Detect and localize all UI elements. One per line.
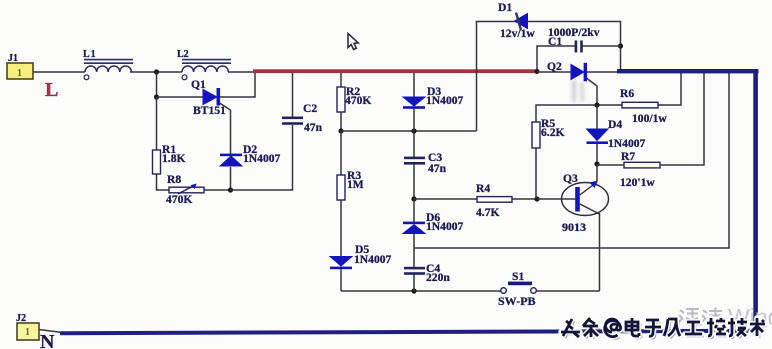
wire switch to emitter column	[536, 290, 600, 292]
wire D3 bottom lead	[413, 107, 415, 131]
diode D5	[330, 257, 352, 270]
svg-text:Q2: Q2	[547, 60, 562, 73]
navy bus top	[617, 69, 759, 73]
wire vertical 156 from 72 to 97	[156, 72, 158, 97]
wire bottom row to switch	[341, 290, 501, 292]
svg-text:120'1w: 120'1w	[620, 176, 655, 189]
svg-text:J2: J2	[16, 313, 26, 324]
svg-text:1: 1	[17, 68, 22, 79]
wire R6 right lead riser	[658, 73, 681, 105]
svg-text:N: N	[40, 331, 55, 349]
svg-text:R7: R7	[621, 150, 635, 163]
resistor R2	[337, 87, 345, 112]
svg-text:D1: D1	[498, 1, 512, 14]
svg-text:1N4007: 1N4007	[243, 152, 281, 165]
thyristor Q1 BT151	[203, 88, 220, 106]
svg-text:L: L	[45, 79, 58, 101]
capacitor C2	[282, 117, 303, 125]
wire Q2 gate	[585, 77, 597, 105]
wire R4 row	[414, 198, 477, 200]
wire Q2 anode line	[537, 71, 572, 73]
svg-text:SW-PB: SW-PB	[498, 294, 536, 308]
wire D5 bottom to bottom row	[340, 268, 342, 291]
connector J2	[17, 323, 39, 340]
svg-text:Q3: Q3	[563, 172, 578, 185]
svg-text:47n: 47n	[428, 162, 447, 175]
svg-text:100/1w: 100/1w	[632, 112, 667, 125]
node junction at 597,164	[594, 161, 599, 166]
wire R1 bottom to R8 left	[157, 174, 170, 190]
svg-text:470K: 470K	[345, 94, 371, 107]
wire J2 stub	[39, 330, 62, 333]
diode D6	[403, 222, 425, 234]
wire D2 bottom	[230, 167, 232, 190]
wire 156 down to R1	[156, 97, 158, 150]
capacitor C1	[575, 41, 583, 53]
svg-text:R8: R8	[167, 173, 181, 186]
svg-text:R6: R6	[620, 87, 634, 100]
wire horizontal 131 row	[341, 130, 477, 132]
diode D4	[587, 129, 609, 144]
wire base lead Q3	[537, 198, 576, 200]
inductor L2	[182, 60, 231, 80]
resistor R6	[622, 102, 658, 108]
svg-text:1: 1	[25, 327, 30, 338]
resistor R7	[624, 162, 660, 168]
connector J1	[7, 63, 33, 79]
svg-text:D4: D4	[608, 118, 622, 131]
node junction at 156,97	[154, 94, 159, 99]
node junction at 231,190	[228, 187, 233, 192]
svg-text:4.7K: 4.7K	[476, 206, 500, 219]
potentiometer R8	[169, 184, 204, 195]
wire D4 leads	[596, 105, 598, 129]
svg-text:220n: 220n	[426, 271, 450, 284]
svg-text:1N4007: 1N4007	[426, 220, 464, 233]
resistor R4	[477, 197, 512, 203]
wire C4 bottom lead	[413, 274, 415, 291]
svg-text:6.2K: 6.2K	[541, 126, 565, 139]
wire R2 leads	[340, 73, 342, 87]
svg-text:J1: J1	[8, 53, 18, 64]
wire L2 to red bus	[228, 71, 256, 73]
wire R5 top node row 105	[536, 105, 622, 122]
svg-text:1N4007: 1N4007	[354, 253, 392, 266]
wire C1 left lead	[537, 46, 575, 71]
node junction at 537,199	[534, 196, 539, 201]
resistor R3	[337, 175, 345, 200]
svg-text:1.8K: 1.8K	[162, 152, 186, 165]
diode D3	[403, 97, 425, 109]
navy bus right vertical	[753, 69, 758, 332]
wire R7 right lead riser	[660, 73, 704, 165]
switch S1 SW-PB	[501, 282, 537, 294]
node junction at 597,105	[594, 102, 599, 107]
wire top zener row with corners	[477, 22, 621, 132]
svg-text:L2: L2	[177, 49, 189, 60]
svg-text:S1: S1	[512, 270, 524, 283]
caption 头条 @电子及工控技术	[561, 318, 767, 339]
svg-text:BT151: BT151	[193, 104, 226, 117]
capacitor C3	[404, 157, 425, 165]
resistor R1	[153, 150, 161, 174]
wire C2 top to bus	[292, 73, 294, 117]
watermark 激活 Windows	[679, 304, 772, 330]
node junction at 414,291	[411, 288, 416, 293]
artifact ghost smear below Q2	[572, 80, 585, 102]
wire R5 bottom lead	[535, 148, 537, 199]
wire J1 to L1	[33, 71, 85, 73]
node junction at 156,72	[154, 69, 159, 74]
wire R3 bottom to D5	[340, 200, 342, 257]
node junction at 620,46	[618, 43, 623, 48]
wire long row 248 to right riser	[414, 73, 729, 248]
svg-text:C1: C1	[548, 35, 562, 48]
svg-text:Q1: Q1	[191, 78, 206, 91]
node junction at 341,131	[338, 128, 343, 133]
node junction at 537,71.5	[535, 69, 540, 74]
svg-text:R4: R4	[476, 182, 490, 195]
wire C1 right lead	[582, 45, 621, 47]
transistor Q3 9013	[562, 181, 609, 216]
wire R3 top lead	[340, 131, 342, 175]
wire R8 right to D2 node	[204, 189, 231, 191]
wire C3 leads	[413, 131, 415, 157]
svg-text:47n: 47n	[304, 121, 323, 134]
mouse cursor	[348, 34, 358, 50]
diode D2	[220, 154, 242, 166]
wire Q3 collector lead	[596, 164, 598, 181]
svg-text:1N4007: 1N4007	[426, 94, 464, 107]
thyristor Q2	[571, 63, 587, 82]
capacitor C4	[404, 267, 425, 275]
wire Q1 cathode to corner up to bus	[219, 71, 255, 97]
svg-text:1M: 1M	[347, 178, 364, 191]
svg-text:L1: L1	[83, 49, 97, 60]
svg-text:470K: 470K	[166, 193, 192, 206]
svg-text:1N4007: 1N4007	[608, 137, 646, 150]
node junction at 414,131	[411, 128, 416, 133]
wire Q1 gate down to D2	[220, 103, 231, 154]
red bus L line	[253, 69, 538, 73]
wire D3 top lead	[413, 73, 415, 97]
svg-text:C2: C2	[303, 102, 317, 115]
wire Q3 emitter down	[599, 213, 601, 291]
zener D1	[515, 13, 528, 31]
wire to Q1 anode	[157, 96, 204, 98]
navy bus bottom	[60, 329, 757, 335]
resistor R5	[532, 122, 540, 148]
wire D6 leads	[413, 199, 415, 222]
svg-text:9013: 9013	[562, 220, 586, 234]
wire L1 to L2	[130, 71, 182, 73]
svg-text:12v/1w: 12v/1w	[500, 27, 535, 40]
inductor L1	[84, 60, 133, 80]
node junction at 414,199	[411, 196, 416, 201]
wire R7 row	[597, 164, 624, 166]
wire Q2 cathode line	[586, 71, 620, 73]
wire node to C2 bottom	[231, 125, 293, 190]
